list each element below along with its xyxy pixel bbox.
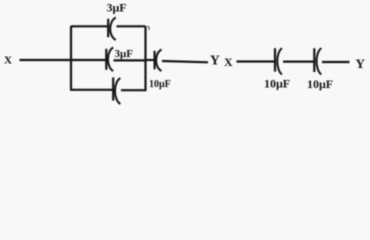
svg-text:X: X <box>224 55 233 69</box>
svg-text:10μF: 10μF <box>149 79 171 90</box>
svg-text:3μF: 3μF <box>115 48 134 60</box>
svg-text:Y: Y <box>210 53 220 68</box>
svg-text:10μF: 10μF <box>264 77 290 91</box>
svg-text:3μF: 3μF <box>107 1 127 15</box>
svg-text:Y: Y <box>356 56 366 71</box>
svg-text:10μF: 10μF <box>307 77 333 91</box>
svg-text:X: X <box>4 55 12 67</box>
